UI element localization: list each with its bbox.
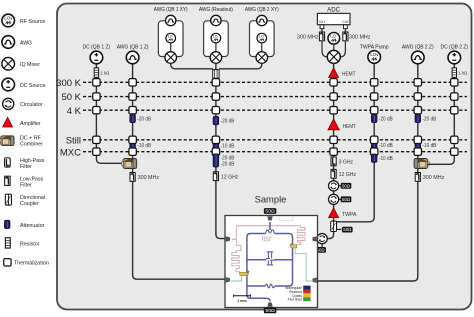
wire: circulator 3 to 50 Ohm termination	[321, 244, 323, 247]
thermalization: TWPA pump at 300 K	[371, 79, 378, 86]
attenuator -10 dB (TWPA pump, below MXC)	[371, 154, 377, 162]
legend Low-Pass Filter icon	[5, 176, 10, 185]
svg-text:-10 dB: -10 dB	[379, 156, 393, 162]
legend AWG icon	[2, 36, 15, 49]
attenuator -10 dB (readout, Still-MXC)	[213, 142, 219, 150]
svg-text:Resistor: Resistor	[20, 241, 40, 247]
svg-text:RF Source: RF Source	[20, 19, 45, 25]
thermalization: AWG (QB 2 Z) at 50 K	[414, 93, 421, 100]
thermalization: readout output at 300 K	[330, 79, 337, 86]
stage dashed line MXC	[83, 151, 467, 153]
termination 50 Ohm (circulator 1)	[341, 183, 352, 189]
svg-text:IQ Mixer: IQ Mixer	[20, 62, 40, 68]
svg-text:TWPA Pump: TWPA Pump	[360, 45, 389, 51]
wire: coupler down to circulator 3	[327, 232, 333, 239]
amplifier HEMT (4 K)	[328, 119, 339, 130]
svg-text:AWG (QB 1 Z): AWG (QB 1 Z)	[117, 45, 149, 51]
LO source (QB 2 XY)	[257, 33, 267, 43]
amplifier TWPA	[329, 208, 339, 218]
svg-text:Sample: Sample	[255, 193, 287, 204]
RF source TWPA pump	[368, 51, 381, 64]
readout resonator 1 meander (chip)	[232, 226, 241, 274]
amplifier HEMT (300 K)	[329, 68, 339, 78]
thermalization: readout drive at 300 K	[212, 79, 219, 86]
svg-text:Filter: Filter	[20, 164, 32, 170]
svg-text:-10 dB: -10 dB	[221, 144, 235, 150]
LO source (QB 1 XY)	[166, 33, 176, 43]
legend IQ Mixer icon	[2, 57, 15, 70]
wire: I output of down-mixer to Ch1 filter	[322, 40, 327, 57]
ADC Ch2 port	[344, 25, 348, 29]
attenuator -10 dB (TWPA pump, Still-MXC)	[371, 141, 377, 149]
readout resonator gray coupler texture (chip)	[263, 237, 272, 241]
svg-text:Combiner: Combiner	[20, 142, 43, 148]
thermalization: readout output at MXC	[330, 148, 337, 155]
wire: readout output line (sample to mixer)	[333, 63, 335, 222]
sample port launcher right readout	[313, 236, 317, 241]
circulator 2	[329, 194, 339, 204]
svg-text:1 kΩ: 1 kΩ	[458, 71, 467, 77]
sample port launcher bottom	[267, 303, 272, 307]
wire: readout IQ path	[215, 44, 217, 52]
wire: DC (QB 2 Z) line down to combiner 2	[428, 63, 455, 164]
chip legend color bar	[303, 286, 310, 302]
wire: TWPA pump line down to coupler	[337, 62, 375, 222]
attenuator -20 dB (QB 2 Z, 4K-Still)	[415, 114, 421, 122]
thermalization: readout drive at MXC	[212, 148, 219, 155]
stage dashed line 4 K	[83, 109, 467, 111]
thermalization: DC (QB 1 Z) at 300 K	[93, 79, 100, 86]
thermalization: TWPA pump at Still	[371, 136, 378, 143]
circulator 3	[317, 234, 327, 244]
svg-text:Attenuator: Attenuator	[20, 223, 45, 229]
svg-text:50 K: 50 K	[61, 92, 81, 103]
ADC box U-ADC	[317, 13, 350, 24]
attenuator -20 dB (TWPA pump, 4K-Still)	[371, 114, 377, 122]
svg-text:DC (QB 2 Z): DC (QB 2 Z)	[441, 45, 469, 51]
thermalization: AWG (QB 1 Z) at MXC	[129, 148, 136, 155]
termination 50 Ohm (sample feedline top)	[264, 208, 277, 214]
thermalization: DC (QB 1 Z) at 4 K	[93, 107, 100, 114]
DC + RF combiner 2	[414, 159, 429, 169]
DC + RF combiner 1	[122, 159, 137, 169]
attenuator -20 dB (QB 1 Z, 4K-Still)	[130, 114, 136, 122]
svg-text:Filter: Filter	[20, 182, 32, 188]
svg-text:300 MHz: 300 MHz	[138, 175, 160, 181]
sample port launcher left flux	[226, 277, 230, 282]
DC source DC (QB 2 Z)	[448, 51, 461, 64]
svg-text:-10 dB: -10 dB	[379, 143, 393, 149]
wire: QB1 XY IQ path	[170, 44, 172, 52]
circulator 1	[329, 181, 339, 191]
svg-text:12 GHz: 12 GHz	[339, 172, 357, 178]
unit box AWG (QB 1 XY)	[158, 21, 183, 57]
stage dashed line 50 K	[83, 96, 467, 98]
legend Amplifier icon	[3, 117, 13, 127]
qubit coupling bump right edge (chip)	[291, 244, 294, 248]
wire: QB2 XY IQ path	[261, 44, 263, 52]
thermalization: AWG (QB 1 Z) at Still	[129, 136, 136, 143]
wire: DC (QB 1 Z) line down to combiner 1	[96, 63, 123, 163]
LO source (Readout)	[211, 33, 221, 43]
thermalization: AWG (QB 2 Z) at 300 K	[414, 79, 421, 86]
stage dashed line Still	[83, 139, 467, 141]
sample port launcher right flux	[313, 278, 317, 283]
waveguide middle bus (chip)	[247, 259, 293, 261]
thermalization: AWG (QB 1 Z) at 50 K	[129, 93, 136, 100]
wire: LO to down-mixer	[333, 44, 335, 51]
thermalization: DC (QB 1 Z) at 50 K	[93, 93, 100, 100]
wire: circulator 1 termination	[339, 185, 341, 187]
sample port launcher left readout	[226, 236, 230, 241]
waveguide feedline top stub (chip)	[269, 222, 271, 230]
svg-text:AWG (QB 1 XY): AWG (QB 1 XY)	[154, 7, 188, 13]
svg-text:MXC: MXC	[60, 147, 81, 158]
legend Thermalization icon	[4, 259, 11, 266]
wire: readout drive line down to sample left readout port	[216, 64, 226, 239]
low-pass filter 12 GHz (output)	[331, 169, 336, 178]
sample box	[225, 216, 318, 308]
svg-text:AWG: AWG	[20, 40, 32, 46]
termination 50 Ohm (circulator 2)	[341, 196, 352, 202]
legend Circulator icon	[3, 98, 14, 109]
svg-text:12 GHz: 12 GHz	[221, 174, 239, 180]
wire: combiner 1 output to 300 MHz filter and to sample left flux port	[133, 169, 226, 280]
DC source DC (QB 1 Z)	[90, 51, 103, 64]
svg-text:300 MHz: 300 MHz	[349, 35, 371, 41]
svg-text:3 GHz: 3 GHz	[339, 160, 354, 166]
sample unused pad outline top edge	[279, 216, 293, 220]
termination 50 Ohm (circulator 3)	[315, 247, 326, 253]
svg-text:-10 dB: -10 dB	[423, 143, 437, 149]
svg-text:TWPA: TWPA	[342, 212, 357, 218]
svg-text:-20 dB: -20 dB	[423, 117, 437, 123]
attenuator -10 dB (QB 2 Z, Still-MXC)	[415, 141, 421, 149]
low-pass filter 300 MHz (QB 1 Z)	[130, 173, 135, 182]
legend Directional Coupler icon	[5, 194, 11, 205]
svg-text:DC Source: DC Source	[20, 83, 46, 89]
thermalization: AWG (QB 2 Z) at Still	[414, 136, 421, 143]
svg-text:HEMT: HEMT	[343, 124, 357, 130]
svg-text:-20 dB: -20 dB	[221, 119, 235, 125]
IQ mixer (down-conversion)	[327, 50, 340, 63]
qubit coupler arrow right (chip)	[290, 245, 297, 248]
high-pass filter 3 GHz	[331, 157, 336, 166]
sample port launcher top	[267, 216, 272, 220]
AWG circle (Readout)	[211, 15, 221, 25]
termination 50 Ohm (coupler)	[342, 227, 353, 233]
svg-text:HEMT: HEMT	[342, 71, 356, 77]
wire: QB1 XY mixer output to readout junction	[171, 64, 213, 69]
IQ mixer (QB 2 XY)	[256, 52, 268, 64]
legend High-Pass Filter icon	[5, 158, 11, 167]
svg-text:-20 dB: -20 dB	[137, 117, 151, 123]
svg-text:4 K: 4 K	[67, 106, 82, 117]
svg-text:Ch1: Ch1	[319, 20, 325, 24]
svg-text:Still: Still	[66, 135, 81, 146]
resistor 1 kOhm (QB 2 Z)	[452, 68, 456, 77]
attenuator -20 dB double (readout, below MXC)	[213, 154, 219, 167]
IQ mixer (Readout)	[210, 52, 222, 64]
waveguide coupling bump top (chip)	[266, 230, 275, 233]
legend DC + RF Combiner icon	[0, 136, 14, 146]
qubit SQUID center element (chip)	[266, 252, 274, 265]
unit box AWG (Readout)	[204, 21, 229, 57]
svg-text:-10 dB: -10 dB	[137, 143, 151, 149]
thermalization: DC (QB 1 Z) at Still	[93, 136, 100, 143]
svg-text:-20 dB: -20 dB	[221, 162, 235, 168]
AWG source AWG (QB 2 Z)	[412, 51, 425, 64]
LO source (down-conversion)	[328, 32, 340, 44]
flux line right (chip)	[295, 249, 312, 281]
thermalization: DC (QB 2 Z) at 4 K	[451, 107, 458, 114]
svg-text:-20 dB: -20 dB	[221, 155, 235, 161]
thermalization: readout output at Still	[330, 136, 337, 143]
wire: Q output of down-mixer to Ch2 filter	[340, 40, 345, 57]
thermalization: TWPA pump at 4 K	[371, 107, 378, 114]
low-pass filter 300 MHz (Ch2)	[343, 32, 348, 41]
readout feed stub left port (chip)	[232, 238, 237, 240]
termination 50 Ohm (sample feedline bottom)	[264, 308, 277, 314]
thermalization: readout output at 50 K	[330, 93, 337, 100]
svg-text:Ch2: Ch2	[342, 20, 348, 24]
directional coupler (TWPA pump)	[331, 221, 337, 231]
attenuator -10 dB (QB 1 Z, Still-MXC)	[130, 141, 136, 149]
low-pass filter 300 MHz (QB 2 Z)	[415, 173, 420, 182]
thermalization: AWG (QB 1 Z) at 300 K	[129, 79, 136, 86]
svg-text:DC (QB 1 Z): DC (QB 1 Z)	[83, 45, 111, 51]
wire: AWG (QB 1 Z) line down to combiner 1	[132, 63, 134, 159]
svg-text:Amplifier: Amplifier	[20, 121, 41, 127]
AWG source AWG (QB 1 Z)	[126, 51, 139, 64]
wire: circulator 2 termination	[339, 198, 341, 200]
svg-text:Flux lines: Flux lines	[288, 298, 303, 302]
legend DC Source icon	[2, 78, 15, 91]
thermalization: DC (QB 1 Z) at MXC	[93, 148, 100, 155]
thermalization: AWG (QB 1 Z) at 4 K	[129, 107, 136, 114]
readout resonator 2 meander (chip)	[296, 226, 305, 245]
svg-text:Coupler: Coupler	[20, 201, 39, 207]
svg-text:AWG (Readout): AWG (Readout)	[199, 7, 233, 13]
svg-text:300 MHz: 300 MHz	[423, 175, 445, 181]
wire: ADC Ch2 to 300 MHz filter	[344, 25, 346, 32]
low-pass filter 12 GHz (readout drive)	[213, 172, 218, 181]
qubit coupler arrow left (chip)	[240, 272, 249, 275]
svg-text:AWG (QB 2 XY): AWG (QB 2 XY)	[245, 7, 279, 13]
readout resonator feed rail (chip)	[236, 225, 300, 227]
svg-text:1 mm: 1 mm	[237, 299, 246, 303]
IQ mixer (QB 1 XY)	[165, 52, 177, 64]
thermalization: TWPA pump at 50 K	[371, 93, 378, 100]
svg-text:300 K: 300 K	[56, 78, 81, 89]
resistor 1 kOhm (QB 1 Z)	[94, 68, 98, 77]
ADC Ch1 port	[320, 25, 324, 29]
thermalization: AWG (QB 2 Z) at 4 K	[414, 107, 421, 114]
flux line left (chip)	[231, 276, 242, 281]
legend Attenuator icon	[4, 220, 10, 228]
unit box AWG (QB 2 XY)	[250, 21, 275, 57]
thermalization: DC (QB 2 Z) at Still	[451, 136, 458, 143]
thermalization: readout drive at 50 K	[212, 93, 219, 100]
svg-text:300 MHz: 300 MHz	[297, 35, 319, 41]
wire: AWG (QB 2 Z) line down to combiner 2 and sample right flux port	[318, 63, 418, 281]
qubit coupling bump left edge (chip)	[245, 271, 248, 275]
wire: coupler terminated port to 50 Ohm	[337, 228, 342, 230]
thermalization: TWPA pump at MXC	[371, 148, 378, 155]
thermalization: DC (QB 2 Z) at MXC	[451, 148, 458, 155]
thermalization: AWG (QB 2 Z) at MXC	[414, 148, 421, 155]
svg-text:1 kΩ: 1 kΩ	[100, 71, 109, 77]
chip scale bar 1 mm	[234, 294, 251, 303]
svg-text:-20 dB: -20 dB	[379, 117, 393, 123]
AWG circle (QB 2 XY)	[257, 15, 267, 25]
waveguide bottom wiggle (chip)	[265, 284, 274, 288]
wire: ADC Ch1 to 300 MHz filter	[321, 25, 323, 32]
legend RF Source icon	[2, 14, 15, 27]
high-pass filter at readout junction	[213, 70, 219, 79]
waveguide main loop (chip)	[247, 234, 293, 302]
attenuator -20 dB (readout, 4K-Still)	[213, 116, 219, 124]
low-pass filter 300 MHz (Ch1)	[319, 32, 324, 41]
AWG circle (QB 1 XY)	[166, 15, 176, 25]
thermalization: DC (QB 2 Z) at 300 K	[451, 79, 458, 86]
thermalization: DC (QB 2 Z) at 50 K	[451, 93, 458, 100]
svg-text:Circulator: Circulator	[20, 102, 43, 108]
stage dashed line 300 K	[83, 81, 467, 83]
svg-text:ADC: ADC	[327, 6, 341, 13]
thermalization: readout drive at 4 K	[212, 107, 219, 114]
svg-text:Thermalization: Thermalization	[14, 261, 49, 267]
legend Resistor icon	[5, 238, 10, 248]
thermalization: readout drive at Still	[212, 136, 219, 143]
thermalization: readout output at 4 K	[330, 107, 337, 114]
wire: QB2 XY mixer output to readout junction	[219, 64, 262, 69]
svg-text:AWG (QB 2 Z): AWG (QB 2 Z)	[402, 45, 434, 51]
